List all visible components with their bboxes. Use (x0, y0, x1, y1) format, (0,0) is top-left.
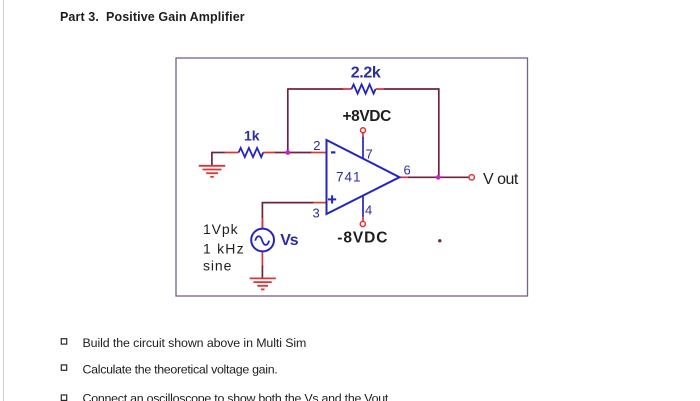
svg-text:sine: sine (203, 257, 232, 273)
pin number 2 (313, 138, 320, 153)
pin number 6 (404, 163, 411, 178)
node A junction dot (input) (285, 150, 290, 155)
label +8VDC (343, 108, 392, 125)
ground (under Vs) (250, 278, 276, 289)
label 1k (244, 128, 260, 144)
+8VDC terminal circle (361, 128, 366, 133)
wire: Vs top vertical riser (262, 203, 314, 229)
bullet square 2 (61, 365, 66, 370)
wire: Vs bottom to ground (261, 266, 263, 279)
svg-text:-8VDC: -8VDC (337, 230, 388, 247)
wire: node A red stub to op-amp pin 2 (311, 152, 327, 154)
svg-text:V out: V out (483, 171, 519, 188)
wire: feedback top horizontal to R2 (287, 88, 343, 90)
stray red period mark (438, 239, 441, 242)
bullet text 3 (cut off at page bottom) (83, 392, 389, 401)
svg-text:4: 4 (365, 203, 372, 218)
svg-text:2.2k: 2.2k (351, 65, 381, 82)
bullet text 1 (83, 336, 307, 350)
op-amp minus sign (pin 2 input) (331, 151, 335, 153)
resistor R1 1k (zigzag + red leads) (225, 148, 276, 157)
bullet square 3 (cut off at page bottom) (61, 395, 66, 400)
-8VDC terminal circle (360, 221, 365, 226)
svg-text:Vs: Vs (280, 232, 298, 249)
wire: R2 right to top-right corner, down to output node (384, 89, 439, 177)
wire: output to junction and Vout terminal (408, 176, 469, 178)
svg-text:Build the circuit shown above: Build the circuit shown above in Multi S… (83, 336, 307, 350)
wire: Vs top red stub (261, 218, 263, 230)
op-amp plus sign (pin 3 input) (328, 195, 336, 203)
svg-text:1 kHz: 1 kHz (203, 240, 245, 256)
svg-text:Part 3. Positive Gain Amplifi: Part 3. Positive Gain Amplifier (60, 10, 245, 24)
resistor R2 2.2k (zigzag + red leads) (343, 84, 385, 93)
pin number 4 (365, 203, 372, 218)
label 1Vpk 1kHz sine (203, 221, 245, 274)
svg-text:3: 3 (313, 206, 320, 221)
label Vout (483, 171, 519, 188)
svg-text:1Vpk: 1Vpk (203, 221, 239, 237)
svg-text:6: 6 (404, 163, 411, 178)
pin number 3 (313, 206, 320, 221)
pin number 7 (366, 147, 373, 162)
svg-text:Connect an oscilloscope to sho: Connect an oscilloscope to show both the… (83, 392, 389, 401)
svg-text:1k: 1k (244, 128, 260, 144)
label 741 (336, 170, 362, 185)
wire: Vs bottom red stub (261, 251, 263, 267)
label 2.2k (351, 65, 381, 82)
bullet text 2 (83, 363, 278, 377)
label Vs (280, 232, 298, 249)
page left edge line (3, 0, 5, 401)
output node junction dot (436, 175, 441, 180)
schematic border box (176, 58, 528, 296)
svg-text:+8VDC: +8VDC (343, 108, 392, 125)
wire: left ground to R1 (212, 152, 226, 154)
bullet square 1 (61, 339, 66, 344)
pin 7 stub (V+) (362, 133, 364, 159)
svg-text:7: 7 (366, 147, 373, 162)
wire: feedback left vertical (node A up) (287, 89, 289, 153)
svg-text:2: 2 (313, 138, 320, 153)
wire: red stub into op-amp pin 3 (313, 202, 327, 204)
op-amp U1 741 triangle (327, 140, 400, 214)
source V1 AC sine circle (251, 229, 274, 252)
label -8VDC (337, 230, 388, 247)
svg-text:Calculate the theoretical volt: Calculate the theoretical voltage gain. (83, 363, 278, 377)
pin 4 stub (V-) (362, 196, 364, 222)
ground (left, input) (199, 152, 225, 177)
wire: R1 to node A (275, 152, 312, 154)
svg-text:741: 741 (336, 170, 362, 185)
wire: op-amp output red stub (399, 176, 409, 178)
Vout terminal circle (469, 175, 474, 180)
